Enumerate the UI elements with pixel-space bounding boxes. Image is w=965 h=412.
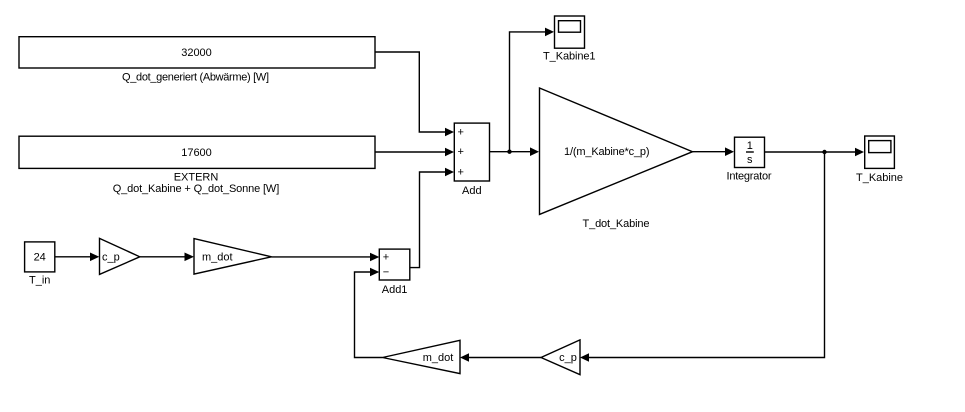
- wire Add1 output up to Add input 3: [410, 172, 446, 268]
- svg-text:m_dot: m_dot: [423, 352, 454, 364]
- svg-text:+: +: [383, 252, 389, 264]
- fraction bar: [746, 151, 754, 153]
- svg-text:+: +: [458, 127, 464, 139]
- sum Add: [454, 123, 489, 181]
- arrowhead into feedback m_dot: [460, 353, 469, 362]
- arrowhead into gain: [530, 147, 539, 156]
- arrowhead into m_dot: [185, 253, 195, 262]
- scope T_Kabine: [865, 136, 895, 168]
- wire feedback from junction down and left to gain c_p: [589, 152, 825, 358]
- svg-text:1: 1: [747, 140, 753, 152]
- wire junction up to scope T_Kabine1: [510, 32, 547, 152]
- gain c_p left (points right): [100, 238, 140, 274]
- svg-text:17600: 17600: [181, 147, 212, 159]
- svg-text:T_dot_Kabine: T_dot_Kabine: [583, 218, 650, 230]
- wire 32000 output to Add input 1: [375, 52, 446, 132]
- arrowhead into Add input 2: [445, 148, 454, 157]
- arrowhead into scope T_Kabine: [855, 148, 864, 157]
- svg-text:32000: 32000: [181, 47, 212, 59]
- svg-text:T_Kabine1: T_Kabine1: [543, 51, 596, 63]
- svg-text:c_p: c_p: [559, 352, 577, 364]
- wire Integrator output to scope T_Kabine: [765, 151, 856, 153]
- arrowhead into scope T_Kabine1: [545, 28, 554, 37]
- constant EXTERN 17600: [19, 136, 375, 168]
- scope T_Kabine1: [555, 16, 585, 48]
- gain m_dot left (points right): [194, 239, 272, 275]
- gain 1/(m_Kabine*c_p): [540, 88, 693, 214]
- constant T_in 24: [25, 242, 55, 272]
- svg-text:EXTERN: EXTERN: [174, 171, 219, 183]
- gain m_dot feedback (points left): [383, 340, 461, 373]
- svg-text:Q_dot_generiert (Abwärme) [W]: Q_dot_generiert (Abwärme) [W]: [122, 72, 269, 84]
- svg-text:Add1: Add1: [382, 284, 408, 296]
- svg-text:−: −: [383, 266, 389, 278]
- svg-text:Add: Add: [462, 185, 482, 197]
- gain c_p feedback (points left): [541, 340, 580, 375]
- svg-text:s: s: [747, 154, 753, 166]
- arrowhead into c_p: [90, 253, 99, 262]
- wire feedback c_p to m_dot: [469, 357, 541, 359]
- wire gain to Integrator: [693, 151, 727, 153]
- svg-text:Q_dot_Kabine + Q_dot_Sonne [W]: Q_dot_Kabine + Q_dot_Sonne [W]: [113, 183, 280, 195]
- arrowhead into Add1 minus: [370, 268, 379, 277]
- arrowhead into Add1 plus: [370, 253, 379, 262]
- arrowhead into Add input 1: [445, 128, 454, 137]
- svg-text:+: +: [458, 146, 464, 158]
- wire 24 to gain c_p: [55, 256, 91, 258]
- wire m_dot to Add1 plus input: [272, 256, 372, 258]
- constant Q_dot_generiert 32000: [19, 37, 375, 68]
- svg-text:T_in: T_in: [29, 274, 50, 286]
- arrowhead into Add input 3: [445, 168, 454, 177]
- arrowhead into Integrator: [725, 147, 734, 156]
- svg-text:m_dot: m_dot: [202, 251, 233, 263]
- svg-text:24: 24: [34, 251, 46, 263]
- wire c_p to m_dot: [140, 256, 186, 258]
- svg-text:c_p: c_p: [102, 252, 120, 264]
- svg-text:1/(m_Kabine*c_p): 1/(m_Kabine*c_p): [564, 146, 650, 158]
- wire Add output to gain T_dot_Kabine: [490, 151, 532, 153]
- junction node feedback: [822, 150, 826, 154]
- svg-text:Integrator: Integrator: [727, 171, 772, 183]
- wire feedback m_dot to Add1 minus input: [355, 272, 383, 358]
- integrator block 1/s: [735, 137, 765, 167]
- sum Add1: [379, 249, 410, 280]
- wire 17600 output to Add input 2: [375, 151, 446, 153]
- arrowhead into feedback c_p: [580, 353, 589, 362]
- junction node after Add: [507, 150, 511, 154]
- svg-text:+: +: [458, 167, 464, 179]
- svg-text:T_Kabine: T_Kabine: [856, 172, 903, 184]
